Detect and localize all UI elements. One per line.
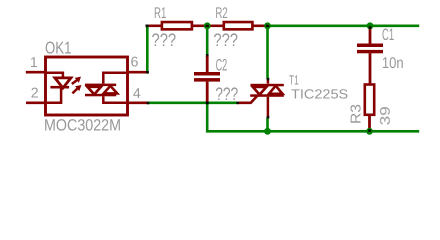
wire joint black: T1 MT2 bbox=[267, 78, 270, 81]
photo-triac bottom bar bbox=[85, 94, 116, 97]
wire: vertical from R1/R2 junction down to C2 bbox=[206, 27, 209, 55]
svg-text:???: ??? bbox=[152, 30, 177, 50]
resistor R2 right pin bbox=[252, 24, 266, 27]
svg-text:C1: C1 bbox=[382, 26, 394, 44]
triac T1 right triangle bbox=[269, 86, 283, 94]
svg-text:6: 6 bbox=[131, 55, 139, 71]
wire: vertical from top junction down to T1 MT2 bbox=[266, 27, 269, 79]
pin 1 stub bbox=[26, 71, 46, 74]
junction node C1 top bbox=[367, 22, 374, 29]
triac T1 top bar bbox=[251, 84, 284, 87]
pin 6 stub bbox=[128, 71, 146, 74]
capacitor C2 top plate bbox=[194, 72, 220, 76]
junction node R2/T1 top bbox=[264, 22, 271, 29]
wire joint black: pin6 corner bbox=[146, 71, 149, 74]
photo-triac top bar bbox=[85, 84, 116, 87]
wire: C2 bottom down to bottom net and bottom horizontal net bbox=[206, 104, 419, 131]
svg-text:2: 2 bbox=[31, 85, 39, 101]
light emission arrow upper bbox=[72, 77, 81, 84]
resistor R1 left pin bbox=[149, 24, 162, 27]
wire joint black: pin4 stub to net bbox=[147, 102, 150, 105]
pin 4 stub bbox=[128, 102, 147, 105]
wire joint black: R1 left corner bbox=[146, 25, 149, 28]
LED cathode bar bbox=[50, 86, 69, 89]
triac T1 MT1 pin bbox=[267, 97, 270, 117]
wire: T1 MT1 down to bottom net bbox=[266, 118, 269, 132]
wire joint black: C2 top bbox=[206, 54, 209, 57]
wire: pin 4 net horizontal bbox=[149, 102, 237, 105]
pin 2 stub bbox=[26, 102, 46, 105]
resistor R1 right pin bbox=[192, 24, 206, 27]
svg-text:???: ??? bbox=[213, 30, 238, 50]
capacitor C1 top pin bbox=[369, 28, 372, 44]
svg-text:TIC225S: TIC225S bbox=[291, 87, 348, 102]
LED triangle bbox=[55, 78, 71, 88]
photo-triac MT1 lead to pin 4 bbox=[103, 96, 127, 103]
photo-triac inside OK1: MT2 lead to pin 6 bbox=[103, 73, 127, 84]
junction node R1/R2/C2 bbox=[204, 22, 211, 29]
wire joint black: T1 MT1 bbox=[267, 116, 270, 119]
capacitor C2 top pin bbox=[206, 56, 209, 72]
resistor R1 bbox=[162, 22, 192, 29]
photo-triac left triangle bbox=[87, 87, 101, 95]
svg-text:R2: R2 bbox=[215, 5, 227, 22]
capacitor C2 bottom pin bbox=[206, 82, 209, 102]
wire: top net R2 right to C1 junction to right end bbox=[266, 24, 419, 27]
capacitor C2 bottom plate bbox=[194, 78, 220, 82]
light emission arrow lower bbox=[72, 85, 81, 93]
svg-text:R1: R1 bbox=[154, 5, 166, 22]
svg-text:R3: R3 bbox=[349, 104, 365, 124]
svg-text:OK1: OK1 bbox=[45, 39, 72, 58]
capacitor C1 bottom plate bbox=[357, 50, 383, 53]
LED cathode lead bbox=[46, 88, 62, 103]
LED inside OK1: anode lead bbox=[46, 73, 63, 77]
resistor R3 bbox=[365, 85, 374, 115]
triac T1 gate pin bbox=[238, 96, 257, 103]
triac T1 bottom bar bbox=[250, 94, 284, 97]
wire: net from pin6 up to R1 left bbox=[146, 26, 149, 72]
photo-triac right triangle bbox=[104, 86, 118, 94]
svg-text:39: 39 bbox=[377, 106, 393, 125]
svg-text:C2: C2 bbox=[216, 55, 228, 74]
resistor R2 left pin bbox=[209, 24, 224, 27]
svg-text:10n: 10n bbox=[382, 55, 404, 72]
wire joint black: gate transition bbox=[236, 102, 239, 105]
svg-text:???: ??? bbox=[215, 84, 238, 104]
svg-text:1: 1 bbox=[30, 55, 38, 71]
triac T1 MT2 pin bbox=[267, 80, 270, 84]
junction node T1 MT1 bottom bbox=[264, 128, 271, 135]
junction node R3 bottom bbox=[366, 128, 373, 135]
capacitor C1 bottom pin / wire to R3 bbox=[369, 53, 372, 84]
capacitor C1 top plate bbox=[357, 44, 383, 48]
triac T1 left triangle bbox=[253, 87, 266, 95]
svg-text:T1: T1 bbox=[289, 73, 299, 88]
resistor R3 bottom pin bbox=[368, 115, 371, 131]
svg-text:4: 4 bbox=[133, 86, 141, 102]
resistor R2 bbox=[224, 22, 253, 29]
wire joint black: C2/pin4 crossing bbox=[206, 102, 209, 105]
optocoupler OK1 box bbox=[46, 57, 128, 115]
svg-text:MOC3022M: MOC3022M bbox=[44, 116, 121, 134]
